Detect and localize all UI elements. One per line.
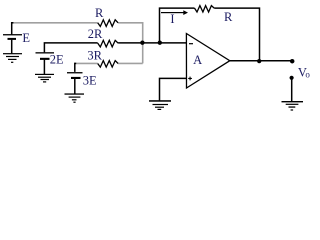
svg-text:3E: 3E: [83, 74, 97, 88]
svg-text:R: R: [95, 6, 104, 20]
svg-text:o: o: [305, 70, 310, 80]
svg-text:E: E: [22, 31, 30, 45]
svg-text:3R: 3R: [87, 49, 102, 63]
svg-text:2R: 2R: [88, 27, 103, 41]
svg-text:I: I: [170, 12, 174, 26]
svg-text:A: A: [193, 53, 202, 67]
svg-text:R: R: [224, 10, 233, 24]
svg-text:2E: 2E: [50, 53, 64, 67]
